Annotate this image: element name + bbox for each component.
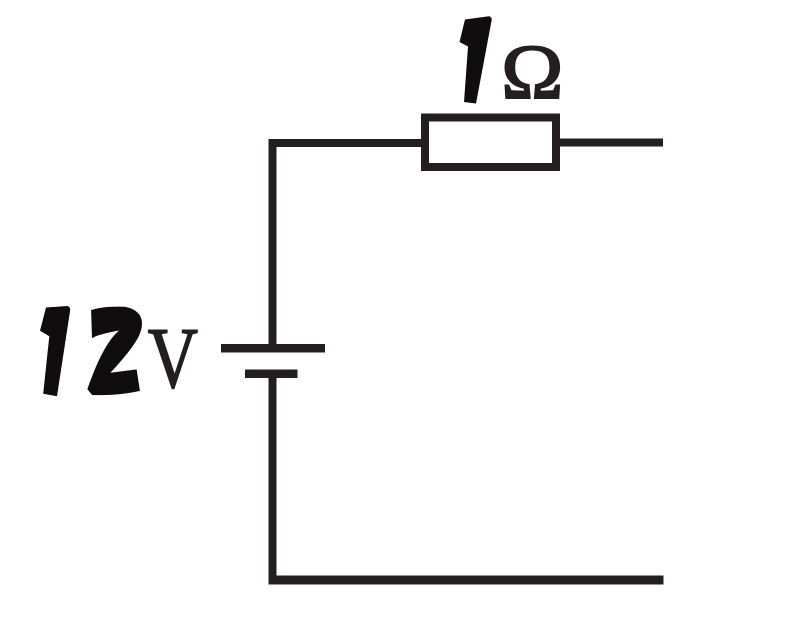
resistor value digit "1": [460, 16, 492, 103]
svg-text:Ω: Ω: [501, 30, 563, 115]
wire: right lead from resistor: [556, 139, 663, 147]
battery B1 short plate (-): [245, 370, 298, 379]
wire: bottom horizontal return: [269, 576, 664, 585]
battery B1 long plate (+): [221, 344, 325, 353]
battery value digit "2" of 12: [87, 307, 142, 396]
wire: battery + terminal up to top-left corner and across to resistor: [273, 143, 426, 348]
wire: battery - terminal down to bottom-left corner: [269, 374, 277, 580]
resistor R1 box: [425, 118, 556, 168]
battery value digit "1" of 12: [40, 306, 70, 396]
svg-text:V: V: [148, 311, 198, 407]
